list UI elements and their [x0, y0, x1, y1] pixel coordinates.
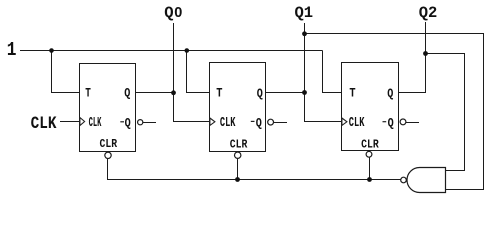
svg-text:Q2: Q2 — [419, 4, 438, 22]
svg-text:Q: Q — [387, 87, 393, 101]
svg-text:Q: Q — [124, 86, 130, 100]
svg-text:Q: Q — [257, 87, 263, 101]
svg-text:Q: Q — [125, 116, 131, 130]
svg-text:Q: Q — [164, 4, 173, 22]
svg-text:CLK: CLK — [349, 115, 365, 131]
svg-text:T: T — [349, 85, 355, 100]
svg-text:Q: Q — [388, 117, 394, 131]
svg-text:CLK: CLK — [89, 116, 102, 131]
svg-text:CLR: CLR — [100, 139, 118, 152]
svg-text:1: 1 — [7, 40, 17, 62]
svg-text:T: T — [216, 85, 222, 100]
svg-text:CLK: CLK — [31, 113, 57, 134]
svg-text:0: 0 — [174, 5, 182, 21]
svg-text:CLR: CLR — [361, 139, 379, 152]
svg-text:CLR: CLR — [230, 139, 248, 152]
svg-text:Q1: Q1 — [295, 4, 314, 22]
svg-text:CLK: CLK — [220, 115, 236, 131]
svg-text:T: T — [85, 87, 91, 101]
svg-text:Q: Q — [256, 116, 262, 130]
